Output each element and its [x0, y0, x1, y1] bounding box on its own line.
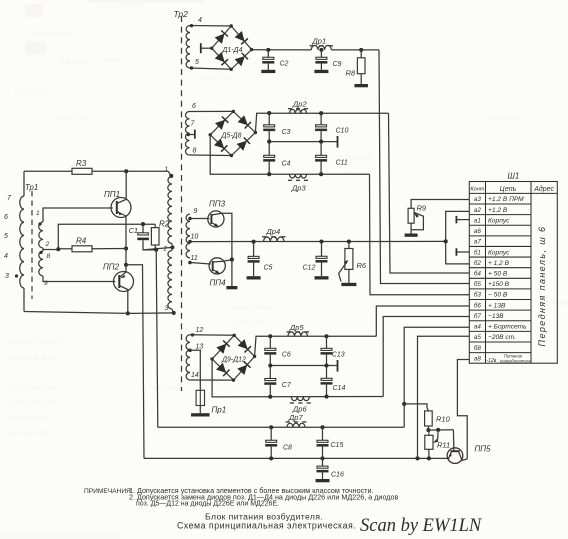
svg-text:Корпус: Корпус: [488, 217, 510, 224]
svg-text:R8: R8: [346, 69, 356, 78]
choke Dr5: [288, 332, 308, 336]
PP4 collector lead to output node: [213, 260, 232, 262]
choke Dr1: [311, 45, 331, 50]
node: PP1 collector on top rail: [124, 169, 128, 173]
node: branch to bottom supply rail: [124, 263, 128, 267]
svg-text:5: 5: [195, 59, 199, 66]
svg-text:3: 3: [165, 305, 169, 312]
svg-text:С1: С1: [129, 226, 139, 235]
wire: PP5 base from divider: [452, 430, 455, 451]
R11 wiper arrow: [437, 430, 440, 440]
svg-text:С6: С6: [282, 352, 291, 359]
svg-text:б7: б7: [474, 312, 482, 320]
svg-text:б3: б3: [474, 291, 482, 299]
svg-text:ПОСТ АБВ: ПОСТ АБВ: [235, 321, 265, 327]
svg-text:б6: б6: [474, 301, 482, 309]
svg-text:С4: С4: [282, 161, 291, 168]
resistor R2: [154, 224, 156, 227]
chassis bar at connector b1: [456, 251, 469, 253]
svg-text:Д9-Д12: Д9-Д12: [221, 357, 246, 364]
svg-text:а3: а3: [474, 196, 482, 203]
node a5 tap: [415, 456, 419, 460]
resistor R8: [360, 50, 362, 58]
chassis bar at winding II centre tap (pin 7): [187, 133, 190, 136]
svg-text:а2: а2: [474, 207, 482, 214]
svg-text:Передняя панель, ш 6: Передняя панель, ш 6: [537, 226, 547, 347]
svg-text:6: 6: [4, 214, 8, 221]
svg-text:R4: R4: [76, 237, 87, 246]
svg-text:+150 В: +150 В: [488, 281, 510, 288]
Tr2 pin 2: [170, 245, 174, 249]
Tr2 primary winding lower half (pin 2 to 3): [168, 251, 172, 310]
capacitor C1: [142, 224, 144, 233]
svg-text:9: 9: [194, 208, 198, 215]
node: PP2 collector on bottom rail: [126, 311, 130, 315]
PP5 emitter lead with arrow: [448, 452, 452, 460]
svg-text:Др1: Др1: [312, 37, 327, 46]
capacitor C3: [268, 113, 270, 125]
capacitor C8: [270, 427, 272, 440]
svg-text:С16: С16: [331, 472, 344, 479]
svg-text:Адрес: Адрес: [533, 185, 554, 193]
svg-text:Др4: Др4: [266, 227, 281, 236]
capacitor C5: [253, 242, 255, 257]
svg-text:Д1-Д4: Д1-Д4: [222, 47, 243, 54]
svg-text:б4: б4: [474, 270, 482, 278]
R6 bottom lead and wiper to ground bar: [348, 269, 350, 282]
wire: pin 12 to bridge D9-D12 top: [191, 333, 194, 336]
Tr1 secondary upper winding (pins 1,2): [39, 222, 43, 248]
Tr2 pin 3: [172, 311, 176, 315]
node C9 top: [319, 48, 323, 52]
Tr2 secondary winding IV (pins 12,13,14): [186, 335, 190, 380]
wire: collectors node down to chassis: [231, 260, 233, 286]
Tr2 secondary winding II (pins 6,7,8): [186, 112, 190, 156]
svg-text:б2: б2: [474, 259, 482, 267]
svg-text:1: 1: [36, 210, 40, 217]
transistor PP2: [114, 272, 134, 292]
svg-text:а5: а5: [474, 334, 482, 341]
ground bar under fuse Pr1: [191, 413, 210, 416]
svg-text:ОБМ ПОСТ КЛАСС: ОБМ ПОСТ КЛАСС: [10, 341, 64, 347]
wire: -20V rail up to connector a5: [418, 336, 470, 458]
rectifier bridge D1-D4: [212, 26, 252, 69]
node wiper junction: [436, 428, 440, 432]
svg-text:Др3: Др3: [291, 184, 306, 193]
svg-text:ОБМОТ ПОСТ: ОБМОТ ПОСТ: [10, 416, 51, 422]
Tr2 secondary winding III (pins 9,10,11): [186, 214, 190, 258]
svg-text:Ш1: Ш1: [508, 172, 520, 181]
svg-text:4: 4: [198, 17, 202, 24]
svg-text:С11: С11: [336, 160, 348, 167]
capacitor C11: [320, 142, 322, 156]
ground bar under C5: [247, 276, 261, 279]
wire: bridge plus up to +50V rail: [255, 113, 388, 132]
capacitor C6: [269, 336, 271, 348]
svg-text:ВЫВОД НОМ АБ: ВЫВОД НОМ АБ: [10, 356, 57, 362]
wire: oscillator bottom rail to Tr2 pin 3: [24, 312, 174, 314]
svg-text:а1: а1: [474, 217, 481, 224]
resistor R4: [58, 248, 72, 250]
node: emitters junction with R4 wire: [124, 246, 128, 250]
svg-text:12: 12: [196, 327, 204, 334]
wire: pin 9 to PP3 base: [188, 217, 192, 221]
wire: bridge minus down to -50V rail: [210, 135, 369, 174]
svg-text:Цепь: Цепь: [500, 186, 517, 193]
wire: Dr1 to +150V corner: [331, 49, 379, 51]
wire: PP5 collector up to connector a8 (reverb supply): [457, 360, 469, 460]
Tr1 winding polarity dot near pin 3: [15, 274, 18, 277]
mid rail ground wire with chassis bar: [269, 141, 337, 143]
wire: Tr1 left winding bottom to bottom rail: [23, 288, 25, 312]
svg-text:С14: С14: [333, 385, 346, 392]
ground bar under C12: [315, 276, 329, 279]
+1.2V feed bracket to a2 and b2: [446, 211, 470, 264]
transistor PP4: [209, 258, 225, 274]
node R10/R11 junction: [426, 428, 430, 432]
svg-text:ПРИМЕЧАНИЯ:: ПРИМЕЧАНИЯ:: [84, 488, 133, 495]
node: PP3/PP4 collectors junction: [230, 258, 234, 262]
svg-text:R11: R11: [437, 441, 450, 450]
ground bar under R6: [341, 283, 356, 286]
node C12 top: [319, 239, 323, 243]
node C7 bottom: [268, 395, 272, 399]
svg-text:б5: б5: [474, 280, 482, 288]
capacitor C14: [326, 366, 328, 379]
ground bar under R9: [405, 234, 418, 237]
wire: R2 bottom to Tr2 pin 2: [154, 245, 156, 250]
ground bar under C2: [261, 70, 275, 73]
resistor R10: [425, 411, 433, 426]
rectifier bridge D9-D12: [212, 335, 255, 380]
svg-text:ревербератора: ревербератора: [499, 358, 532, 363]
wire: pin 13 centre tap to fuse Pr1: [188, 349, 192, 353]
svg-text:ПП1: ПП1: [104, 190, 120, 199]
transistor PP5: [447, 448, 463, 464]
node: a4 / R10 branch: [402, 402, 406, 406]
svg-text:ПП4: ПП4: [210, 279, 227, 288]
capacitor C9: [320, 50, 322, 57]
svg-text:−20В ст.: −20В ст.: [488, 334, 516, 341]
node C4 bottom: [267, 172, 271, 176]
svg-text:R9: R9: [417, 204, 427, 213]
ground bar under PP3/PP4 node: [226, 286, 237, 289]
node: centre-tap branch junction: [56, 247, 60, 251]
node R8 top: [359, 48, 363, 52]
capacitor C2: [267, 50, 269, 57]
resistor R3: [72, 168, 92, 174]
svg-text:8: 8: [193, 148, 197, 155]
ground bar under C9: [314, 70, 328, 73]
svg-text:б8: б8: [474, 344, 482, 352]
node C2 top: [266, 48, 270, 52]
transformer Tr1 primary winding (pins 7,6,5,4,3): [20, 196, 24, 288]
Tr1 core (dashed): [31, 191, 33, 299]
svg-text:С2: С2: [280, 61, 289, 68]
wire: Bortset node to R10: [404, 404, 428, 411]
PP3 collector lead to output node: [211, 213, 232, 259]
wire: pin 11 to PP4 base: [188, 261, 192, 265]
svg-text:Конт: Конт: [470, 187, 484, 193]
Tr2 pin 1: [169, 174, 173, 178]
PP3 emitter stub with arrow: [211, 223, 217, 227]
wire: pin 14 to bridge D9-D12 bottom: [190, 379, 234, 381]
svg-text:1: 1: [165, 166, 169, 173]
wire: Tr1 pin 9 to PP2 base: [43, 276, 115, 282]
wire: pin 5 to bridge D1-D4 bottom: [190, 68, 231, 69]
svg-text:6: 6: [192, 103, 196, 110]
svg-text:НОМ ОБМ: НОМ ОБМ: [490, 116, 519, 122]
svg-text:Scan by EW1LN: Scan by EW1LN: [360, 516, 483, 536]
node: R2/C1 bottom, supply drop: [154, 248, 158, 252]
svg-text:+1,2 В: +1,2 В: [488, 207, 508, 214]
trimmer resistor R9: [408, 208, 414, 223]
svg-text:ПОСТ ОБМОТКИ: ПОСТ ОБМОТКИ: [10, 386, 58, 392]
svg-text:14: 14: [191, 372, 199, 379]
choke Dr7: [287, 423, 305, 427]
wire: top rail from Tr1 to R3: [24, 170, 72, 172]
wire: bridge minus down to -13V rail: [212, 359, 383, 397]
PP1 emitter lead with arrow: [117, 212, 126, 217]
node C5 top: [252, 240, 256, 244]
connector Sh1 table: [469, 182, 557, 364]
wire: -50V down to connector b3: [370, 174, 470, 295]
node C14 bottom: [324, 395, 328, 399]
wire: bridge plus up to +13V rail: [255, 336, 377, 356]
svg-text:а6: а6: [474, 228, 482, 235]
wire: Tr1 centre tap (pins 2,8) to R4: [42, 248, 44, 251]
PP2 emitter lead with arrow: [119, 272, 126, 278]
wire: pin 10 to +1.2V rail: [188, 240, 192, 244]
node C15/C16 junction: [320, 456, 324, 460]
wire: +13V up to connector b6: [376, 306, 469, 336]
svg-text:ВЫВОД ОБМОТ: ВЫВОД ОБМОТ: [230, 306, 276, 312]
svg-text:КЛАСС АБ НОМ: КЛАСС АБ НОМ: [10, 401, 55, 407]
svg-text:С12: С12: [303, 265, 316, 272]
svg-text:Тр2: Тр2: [174, 9, 189, 19]
ground bar under R8: [360, 74, 362, 84]
capacitor C13: [326, 336, 328, 348]
trimmer resistor R11: [425, 435, 433, 449]
svg-text:5: 5: [4, 233, 8, 240]
svg-text:С13: С13: [332, 352, 345, 359]
svg-text:+ 50 В: + 50 В: [488, 271, 508, 278]
svg-text:+ 13В: + 13В: [488, 302, 506, 309]
svg-text:+ Бортсеть: + Бортсеть: [488, 324, 527, 331]
svg-text:С5: С5: [264, 265, 273, 272]
wire: R10 bottom to R11 top, base divider: [427, 426, 429, 430]
svg-text:С3: С3: [282, 129, 291, 136]
PP2 collector lead: [119, 286, 128, 314]
Tr2 secondary winding I (pins 4,5): [186, 26, 190, 69]
svg-text:+ 1,2 В: + 1,2 В: [488, 260, 510, 267]
node C6 top: [268, 334, 272, 338]
Tr1 secondary lower winding (pins 8,9): [39, 251, 43, 276]
wire: fuse to chassis bar: [199, 406, 201, 414]
svg-text:С9: С9: [333, 61, 342, 68]
capacitor C4: [268, 142, 270, 156]
svg-text:ПП2: ПП2: [103, 263, 120, 272]
svg-text:С8: С8: [283, 445, 292, 452]
node C3 bottom: [267, 140, 271, 144]
svg-text:Др2: Др2: [292, 100, 307, 109]
svg-text:Плюс обмотки: Плюс обмотки: [30, 31, 70, 37]
svg-text:3: 3: [5, 273, 9, 280]
svg-text:ПП5: ПП5: [475, 445, 492, 454]
svg-text:ПОСТ ОБМ: ПОСТ ОБМ: [15, 91, 47, 97]
node C8 top: [269, 425, 273, 429]
svg-text:R6: R6: [357, 261, 367, 270]
Tr1 polarity dot pin 1: [38, 222, 41, 225]
node C8 bottom: [269, 456, 273, 460]
svg-text:ОБМОТ КЛ: ОБМОТ КЛ: [200, 76, 231, 82]
node C10 top: [319, 111, 323, 115]
capacitor C16: [322, 458, 324, 466]
wire: pin 4 to bridge D1-D4 top: [190, 25, 231, 28]
wire: R9 top to connector a3: [411, 200, 469, 209]
svg-text:− 50 В: − 50 В: [488, 292, 508, 299]
svg-text:Тр1: Тр1: [25, 183, 38, 192]
choke Dr4: [264, 237, 285, 242]
node R6 top: [347, 239, 351, 243]
svg-text:С10: С10: [336, 128, 349, 135]
svg-text:С15: С15: [331, 442, 344, 449]
svg-text:АБ НОМ ПОСТ: АБ НОМ ПОСТ: [10, 431, 52, 437]
wire: +150V rail from bridge to corner: [252, 49, 312, 51]
svg-text:ПП3: ПП3: [209, 200, 226, 209]
R11 bottom lead to -20V rail: [428, 449, 430, 458]
wire: R3 to PP1 collector node and Tr2 pin 1: [92, 171, 171, 176]
mid rail ground wire with chassis bar (section 3): [270, 365, 337, 367]
capacitor C15: [322, 427, 324, 440]
svg-text:Д5-Д8: Д5-Д8: [221, 133, 242, 140]
PP5 collector lead: [459, 452, 468, 461]
capacitor C12: [321, 242, 323, 257]
fuse Pr1: [196, 390, 204, 405]
wire: emitter branch down to -20V rail: [126, 265, 144, 459]
node: C1 top: [141, 222, 145, 226]
svg-text:2: 2: [45, 241, 50, 248]
transistor PP3: [208, 211, 224, 227]
transistor PP1: [111, 198, 131, 218]
wire: emitter bus PP1 to PP2: [125, 216, 127, 272]
svg-text:11: 11: [191, 255, 198, 262]
svg-text:13: 13: [196, 344, 204, 351]
svg-text:R10: R10: [436, 415, 451, 424]
svg-text:−13В: −13В: [488, 313, 504, 320]
wire: pin 8 to bridge D5-D8 bottom: [190, 154, 232, 157]
svg-text:Схема принципиальная электриче: Схема принципиальная электрическая.: [177, 521, 356, 531]
svg-text:10: 10: [191, 234, 199, 241]
svg-text:+1,2 В ПРМ: +1,2 В ПРМ: [488, 196, 524, 203]
wire: centre tap up to C1/R2 top wire: [58, 224, 155, 249]
svg-text:б1: б1: [474, 248, 481, 256]
R11 top lead: [428, 430, 430, 435]
wire: Tr1 pin 1 to PP1 base: [43, 208, 113, 222]
svg-text:НЦО. АБВ ПОСТ: НЦО. АБВ ПОСТ: [95, 4, 142, 10]
node C11 bottom: [319, 172, 323, 176]
ground bar under C16: [316, 479, 330, 482]
wire: pin 6 to bridge D5-D8 top: [190, 110, 234, 112]
svg-text:Др7: Др7: [288, 413, 303, 422]
filter rail from R2 node: Bortset supply: [158, 426, 404, 428]
node C10 bottom: [319, 140, 323, 144]
choke Dr2: [290, 109, 307, 113]
chassis bar at bridge D1-D4 minus terminal: [201, 47, 212, 49]
capacitor C7: [269, 366, 271, 379]
svg-text:2: 2: [163, 246, 168, 253]
-20V bottom rail: [144, 457, 449, 459]
wire: R4 to emitter bus: [92, 248, 126, 250]
svg-text:R3: R3: [76, 159, 87, 168]
node C3 top: [267, 111, 271, 115]
capacitor C10: [320, 113, 322, 125]
svg-text:поз. Д5—Д12 на диоды Д226Е или: поз. Д5—Д12 на диоды Д226Е или МД226Е.: [136, 500, 279, 507]
Tr2 primary winding upper half (pin 1 to 2): [168, 177, 172, 244]
node +1.2V rail to bracket: [444, 239, 448, 243]
svg-text:ТОРОЕП: ТОРОЕП: [58, 58, 91, 67]
choke Dr6: [291, 397, 309, 401]
svg-text:Др5: Др5: [289, 323, 304, 332]
trimmer resistor R6: [348, 242, 350, 249]
Tr2 core (dashed): [181, 16, 183, 391]
svg-text:8: 8: [47, 253, 51, 260]
svg-text:С7: С7: [282, 382, 292, 389]
wire: Bortset rail up to connector a4: [404, 327, 469, 427]
svg-text:а4: а4: [474, 324, 482, 331]
node C13 top: [324, 334, 328, 338]
svg-text:Пр1: Пр1: [212, 406, 227, 415]
choke Dr3: [290, 174, 307, 178]
chassis bar at connector a1: [456, 219, 469, 221]
svg-text:-12в: -12в: [487, 358, 497, 364]
PP1 collector lead: [117, 171, 126, 203]
svg-text:ТОРГОН: ТОРГОН: [55, 115, 87, 124]
svg-text:Корпус: Корпус: [488, 249, 510, 256]
wire: supply drop from R2 node down to filter rail: [156, 250, 158, 427]
svg-text:ПОСТ НОМ: ПОСТ НОМ: [150, 386, 182, 392]
wire: Tr1 left winding top to top rail: [23, 171, 25, 196]
Tr1 polarity dot pin 8: [39, 251, 42, 254]
svg-text:а7: а7: [474, 239, 482, 246]
svg-text:поз.ном: поз.ном: [100, 58, 122, 64]
node R11 bottom: [427, 456, 431, 460]
node C15 top: [320, 425, 324, 429]
svg-text:4: 4: [4, 253, 8, 260]
rectifier bridge D5-D8: [210, 111, 255, 155]
wire: -13V up to connector b7: [383, 317, 469, 397]
R9 wiper and bottom to ground: [411, 213, 423, 230]
wire: +150V down to connector b5: [379, 50, 469, 284]
wire: +50V down to connector b4: [389, 113, 470, 273]
svg-text:а8: а8: [474, 355, 482, 362]
PP4 emitter stub with arrow: [213, 270, 219, 274]
